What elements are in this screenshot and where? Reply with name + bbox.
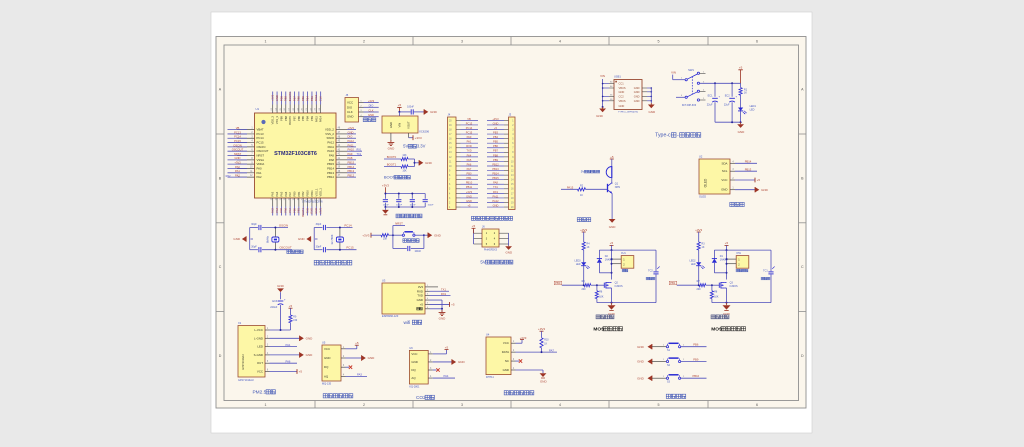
svg-text:PA7: PA7 bbox=[467, 167, 472, 171]
svg-text:EC1: EC1 bbox=[708, 94, 713, 97]
caption dan-pian-ji-yin-jiao-wai-yin-pai-zhen (MCU pin headers) bbox=[471, 216, 512, 220]
power +5 wifi bbox=[430, 302, 455, 307]
svg-text:PB4: PB4 bbox=[306, 115, 310, 120]
caption xia-zai-kou (download port) bbox=[363, 118, 376, 122]
svg-text:GND: GND bbox=[505, 251, 513, 255]
ground Y1 bbox=[233, 236, 246, 241]
svg-text:PC14: PC14 bbox=[234, 135, 241, 139]
svg-text:STM32F103C8T6: STM32F103C8T6 bbox=[274, 151, 317, 157]
svg-text:GND: GND bbox=[233, 237, 241, 241]
wire bottom rail fan bbox=[597, 288, 656, 304]
wire BOOT junction to ground bbox=[414, 159, 420, 167]
resistor R9 150 bbox=[289, 315, 298, 323]
svg-text:RX1: RX1 bbox=[441, 292, 447, 296]
svg-text:VBUS: VBUS bbox=[619, 99, 626, 103]
diode D2 1N4007 flyback bbox=[597, 250, 614, 273]
wire key S3 left bbox=[652, 376, 666, 378]
svg-text:1: 1 bbox=[265, 40, 267, 44]
resistor R3 1K bbox=[697, 242, 705, 250]
svg-text:PA5: PA5 bbox=[279, 207, 283, 212]
power +3V3 reset bbox=[362, 233, 371, 238]
svg-text:X1: X1 bbox=[238, 321, 242, 325]
svg-text:XC6206: XC6206 bbox=[419, 130, 430, 134]
wire switch lower left bbox=[676, 96, 685, 98]
svg-text:+5: +5 bbox=[757, 178, 761, 182]
net label PB9 key bbox=[681, 358, 707, 362]
svg-text:A5: A5 bbox=[610, 81, 612, 84]
regulator U7 XC6206 bbox=[382, 116, 430, 134]
svg-text:USB1: USB1 bbox=[614, 75, 621, 79]
caption BOOT she-zhi-dian-lu (BOOT config) bbox=[384, 175, 410, 180]
svg-text:6: 6 bbox=[756, 40, 758, 44]
svg-text:GND: GND bbox=[411, 360, 417, 364]
resistor R7 200 gate bbox=[697, 280, 706, 291]
svg-text:S-GND: S-GND bbox=[254, 353, 263, 357]
svg-text:PB12: PB12 bbox=[492, 162, 499, 166]
no-connect X DHT11 NC bbox=[516, 359, 523, 362]
ground typec bbox=[737, 122, 745, 134]
svg-text:GND: GND bbox=[634, 94, 640, 98]
svg-text:GND: GND bbox=[738, 130, 746, 134]
svg-text:B9: B9 bbox=[610, 99, 612, 101]
svg-text:GND: GND bbox=[466, 194, 472, 198]
svg-text:AQ: AQ bbox=[411, 376, 416, 380]
wire USB1 left pins bbox=[602, 79, 614, 107]
resistor R1 1K bbox=[739, 83, 748, 95]
crystal Y1 8MHz bbox=[265, 235, 279, 243]
ground BOOT circuit bbox=[419, 160, 433, 165]
svg-text:1K: 1K bbox=[544, 343, 547, 345]
svg-text:LED: LED bbox=[750, 109, 755, 112]
svg-text:PB13: PB13 bbox=[492, 167, 499, 171]
svg-text:TC2: TC2 bbox=[648, 269, 653, 272]
svg-text:PA11: PA11 bbox=[348, 143, 355, 147]
power +5 ion bbox=[725, 241, 729, 250]
svg-text:PB0: PB0 bbox=[292, 207, 296, 212]
svg-text:OLED: OLED bbox=[704, 178, 708, 187]
wire key S2 left bbox=[652, 359, 666, 361]
svg-text:+5: +5 bbox=[725, 241, 729, 245]
svg-text:PA11: PA11 bbox=[493, 194, 500, 198]
connector XH1 output header bbox=[727, 252, 749, 272]
ground key S3 bbox=[637, 376, 652, 381]
wire reset left bbox=[371, 234, 381, 236]
ground key S1 bbox=[637, 344, 652, 349]
svg-text:22uF: 22uF bbox=[707, 104, 713, 107]
svg-text:5: 5 bbox=[658, 403, 660, 407]
svg-text:R10: R10 bbox=[544, 339, 549, 341]
svg-text:CLK: CLK bbox=[368, 108, 373, 112]
ground PM2.5 L-GND bbox=[270, 336, 314, 341]
svg-text:+5: +5 bbox=[355, 341, 359, 345]
wire R2 to base bbox=[586, 188, 608, 190]
svg-text:PM2.5: PM2.5 bbox=[252, 389, 266, 395]
svg-text:GND: GND bbox=[721, 188, 727, 192]
svg-text:VIN: VIN bbox=[397, 123, 401, 128]
svg-text:B5: B5 bbox=[610, 94, 612, 96]
svg-text:10K: 10K bbox=[402, 154, 407, 157]
svg-text:4: 4 bbox=[559, 403, 561, 407]
svg-text:PB3: PB3 bbox=[493, 130, 498, 134]
ground DHT11 bbox=[516, 370, 548, 384]
connector J4 header 20pin left bbox=[448, 113, 479, 210]
svg-text:5V: 5V bbox=[581, 170, 585, 174]
svg-text:PB6: PB6 bbox=[493, 144, 498, 148]
svg-text:GND: GND bbox=[434, 233, 442, 237]
crystal Y2 32.768K bbox=[330, 234, 344, 244]
svg-text:VIN: VIN bbox=[600, 74, 605, 78]
svg-text:PC13: PC13 bbox=[234, 130, 241, 134]
net label PC15 bbox=[346, 246, 354, 250]
svg-text:VSS_1: VSS_1 bbox=[314, 188, 318, 197]
svg-text:RX2: RX2 bbox=[271, 207, 275, 213]
svg-text:5V: 5V bbox=[403, 144, 408, 149]
svg-text:DIO: DIO bbox=[369, 104, 374, 108]
svg-text:PA10: PA10 bbox=[348, 148, 355, 152]
svg-text:GND: GND bbox=[637, 376, 645, 380]
svg-text:CC1: CC1 bbox=[619, 82, 625, 86]
capacitor C14 100nF bbox=[383, 200, 390, 207]
svg-text:PA5: PA5 bbox=[467, 158, 472, 162]
transistor Q2 N-MOS bbox=[604, 282, 623, 289]
svg-text:Type-c: Type-c bbox=[655, 133, 671, 139]
svg-text:+3V3: +3V3 bbox=[368, 99, 375, 103]
wire bottom rail ion bbox=[712, 288, 771, 304]
wire Q1 emitter to ground bbox=[611, 193, 613, 219]
svg-text:8MHz: 8MHz bbox=[265, 235, 269, 243]
diode D1 1N4007 flyback bbox=[712, 250, 729, 273]
svg-text:GND: GND bbox=[306, 353, 314, 357]
wire reset bottom loop bbox=[393, 235, 424, 248]
svg-text:+5: +5 bbox=[398, 103, 402, 107]
svg-text:D: D bbox=[801, 354, 804, 358]
svg-text:VCC: VCC bbox=[721, 178, 727, 182]
ground PM2.5 top bbox=[277, 284, 285, 299]
svg-text:GND: GND bbox=[761, 188, 769, 192]
svg-text:VB: VB bbox=[467, 117, 471, 121]
net label VIN usb bbox=[600, 74, 605, 78]
svg-text:PC15: PC15 bbox=[346, 246, 354, 250]
svg-text:wifi: wifi bbox=[403, 320, 410, 326]
svg-text:PA3: PA3 bbox=[271, 191, 275, 196]
caption dan-pian-ji-zui-xiao-xi-tong (MCU minimum system) bbox=[314, 260, 352, 265]
capacitor C 30pF top Y1 bbox=[251, 223, 261, 230]
wire gate node fan bbox=[591, 284, 605, 286]
svg-text:C: C bbox=[801, 265, 804, 269]
ground ion bbox=[723, 303, 731, 316]
capacitor C17 100nF bbox=[423, 200, 435, 207]
svg-text:PB0: PB0 bbox=[555, 281, 561, 285]
transistor Q3 N-MOS bbox=[719, 282, 738, 289]
svg-text:PA5: PA5 bbox=[279, 191, 283, 196]
wire PM2.5 vcc node bbox=[270, 323, 291, 331]
power +5 fan bbox=[610, 241, 614, 250]
wire crystal loop Y1 bbox=[250, 227, 292, 251]
svg-text:PA15: PA15 bbox=[314, 94, 318, 101]
connector J3 header 20pin right bbox=[487, 113, 515, 210]
caption xin-pian-lv-bo-dian-rong (chip filter caps) bbox=[396, 214, 422, 218]
capacitor EC1 22uF bbox=[707, 83, 721, 122]
svg-text:22uF: 22uF bbox=[724, 104, 730, 107]
svg-text:PA1: PA1 bbox=[286, 343, 291, 347]
svg-text:PC13: PC13 bbox=[466, 121, 473, 125]
wire reset node bbox=[389, 234, 403, 236]
capacitor C15 100nF bbox=[396, 200, 403, 207]
svg-text:PA4: PA4 bbox=[275, 207, 279, 212]
svg-text:PB9: PB9 bbox=[693, 358, 699, 362]
svg-text:RX1: RX1 bbox=[493, 190, 499, 194]
power +5 port regulator bbox=[397, 103, 401, 112]
net label PB13 SCL bbox=[735, 167, 757, 171]
svg-text:PB5: PB5 bbox=[493, 140, 498, 144]
caption wifi mo-kuai (wifi module) bbox=[403, 320, 421, 326]
wire DATA net PA7 bbox=[516, 348, 558, 353]
pushbutton reset S4 bbox=[402, 232, 415, 236]
svg-text:3: 3 bbox=[461, 403, 463, 407]
svg-text:PB15: PB15 bbox=[492, 176, 499, 180]
net label NRST bbox=[393, 222, 405, 236]
svg-text:PB11: PB11 bbox=[466, 185, 473, 189]
capacitor C 30pF bottom Y2 bbox=[316, 245, 326, 252]
svg-text:PB3: PB3 bbox=[310, 96, 314, 102]
svg-text:NPN: NPN bbox=[615, 186, 620, 189]
caption du-li-an-jian (independent keys) bbox=[666, 394, 685, 398]
svg-text:PB10: PB10 bbox=[306, 190, 310, 197]
resistor R10 1K pullup bbox=[540, 338, 549, 348]
svg-text:TX1: TX1 bbox=[441, 287, 446, 291]
net label PA15 buzzer bbox=[561, 185, 578, 189]
svg-text:PA6: PA6 bbox=[284, 207, 288, 212]
net label PC14 bbox=[344, 223, 352, 227]
svg-text:U5: U5 bbox=[322, 341, 326, 345]
svg-text:PA9: PA9 bbox=[348, 152, 353, 156]
svg-text:PB1: PB1 bbox=[670, 281, 676, 285]
switch SW1 KFT-DIP-6X6 bbox=[681, 68, 706, 107]
wire diode node ion bbox=[714, 272, 726, 274]
svg-text:PA0: PA0 bbox=[235, 165, 240, 169]
svg-text:PA2: PA2 bbox=[235, 174, 240, 178]
svg-text:PB6: PB6 bbox=[693, 343, 699, 347]
svg-text:30pF: 30pF bbox=[251, 245, 257, 248]
svg-text:NRST: NRST bbox=[395, 222, 403, 226]
svg-text:PA3: PA3 bbox=[357, 373, 362, 377]
svg-text:PB13: PB13 bbox=[348, 169, 355, 173]
svg-text:GND: GND bbox=[368, 356, 376, 360]
net label PB0 gate bbox=[554, 281, 561, 285]
svg-text:MOS: MOS bbox=[593, 326, 605, 332]
svg-text:PA4: PA4 bbox=[467, 153, 472, 157]
svg-text:5: 5 bbox=[658, 40, 660, 44]
svg-text:GND: GND bbox=[634, 99, 640, 103]
svg-text:GND: GND bbox=[540, 380, 548, 384]
svg-text:BOOT1: BOOT1 bbox=[301, 207, 305, 216]
U1 top pins with rotated net labels bbox=[271, 92, 323, 125]
svg-text:PB1: PB1 bbox=[297, 191, 301, 196]
svg-text:N-MOS: N-MOS bbox=[615, 285, 623, 288]
svg-text:100nF: 100nF bbox=[383, 205, 390, 207]
svg-text:+3V3: +3V3 bbox=[466, 190, 473, 194]
connector J5 download port bbox=[345, 93, 379, 122]
svg-text:GND: GND bbox=[458, 360, 466, 364]
net label RX1 wifi bbox=[430, 292, 451, 296]
wifi module U3 ESP8266-12F bbox=[382, 279, 430, 319]
connector FU1 output header bbox=[612, 252, 634, 272]
wire key S1 left bbox=[652, 344, 666, 346]
svg-text:NRST: NRST bbox=[234, 152, 242, 156]
net label TX1 wifi bbox=[430, 287, 450, 291]
U1 right pins with net labels bbox=[325, 126, 362, 179]
svg-text:PB14: PB14 bbox=[348, 165, 355, 169]
svg-text:VBUS: VBUS bbox=[619, 86, 626, 90]
svg-text:PA7: PA7 bbox=[288, 191, 292, 196]
net label OSCIN bbox=[279, 223, 288, 227]
svg-text:GND: GND bbox=[324, 356, 330, 360]
svg-text:PB12: PB12 bbox=[348, 174, 355, 178]
capacitor C 30pF top Y2 bbox=[316, 223, 326, 230]
resistor R 10K reset bbox=[381, 234, 389, 241]
LED1 bbox=[738, 95, 756, 122]
svg-text:PA4: PA4 bbox=[275, 191, 279, 196]
svg-text:GND: GND bbox=[389, 122, 393, 128]
svg-text:GND: GND bbox=[314, 208, 318, 214]
svg-text:+3V3: +3V3 bbox=[415, 136, 422, 140]
sensor U6 KQ-2801 bbox=[409, 346, 432, 388]
ground CO2 bbox=[433, 359, 466, 364]
svg-text:PB5: PB5 bbox=[301, 96, 305, 102]
svg-text:PB13: PB13 bbox=[745, 167, 752, 171]
svg-text:1K: 1K bbox=[702, 246, 705, 249]
svg-text:GND: GND bbox=[439, 317, 447, 321]
caption feng-ming-qi (buzzer) bbox=[577, 218, 591, 222]
OLED module U2 bbox=[699, 155, 735, 199]
svg-text:VOUT: VOUT bbox=[407, 121, 411, 129]
net label OSCOUT bbox=[279, 246, 292, 250]
svg-text:VCC: VCC bbox=[347, 101, 353, 105]
svg-text:PA8: PA8 bbox=[348, 156, 353, 160]
svg-text:OLED: OLED bbox=[699, 194, 706, 198]
wire wifi pin1 bbox=[430, 286, 439, 288]
power +5 typec bbox=[738, 66, 742, 84]
net label PA6 PM2.5 bbox=[270, 359, 298, 363]
svg-text:32.768K: 32.768K bbox=[330, 234, 334, 244]
svg-text:ESP8266-12F: ESP8266-12F bbox=[382, 314, 399, 318]
resistor R5 200 gate bbox=[582, 280, 591, 291]
svg-text:GND: GND bbox=[596, 114, 604, 118]
svg-text:+5: +5 bbox=[610, 155, 614, 159]
power +3V3 DHT11 pullup bbox=[538, 327, 545, 338]
resistor R2 1K buzzer bbox=[578, 184, 586, 197]
caption xian-shi-ping (display) bbox=[730, 202, 744, 206]
caption MOS guan-kong-zhi-feng-shan (MOS controls fan) bbox=[593, 326, 622, 332]
svg-text:TYPE-C-16PIN(073): TYPE-C-16PIN(073) bbox=[618, 111, 638, 113]
svg-text:PB0: PB0 bbox=[467, 172, 472, 176]
svg-text:VB: VB bbox=[236, 126, 240, 130]
svg-text:+3V3: +3V3 bbox=[580, 228, 587, 232]
svg-text:-: - bbox=[677, 133, 679, 139]
capacitor C16 100nF bbox=[410, 200, 417, 207]
svg-text:+5: +5 bbox=[445, 346, 449, 350]
ground MQ135 bbox=[346, 355, 376, 360]
svg-text:PB7: PB7 bbox=[493, 149, 498, 153]
svg-text:GP2Y1014AU: GP2Y1014AU bbox=[242, 354, 245, 370]
pushbutton S1 bbox=[666, 343, 680, 352]
wire USB1 right pins to ground bbox=[642, 87, 652, 103]
svg-text:GND: GND bbox=[430, 110, 438, 114]
svg-text:KFT-DIP-6X6: KFT-DIP-6X6 bbox=[682, 104, 697, 107]
svg-text:NC: NC bbox=[505, 359, 509, 363]
svg-text:PB1: PB1 bbox=[467, 176, 472, 180]
svg-text:3.3V: 3.3V bbox=[417, 144, 426, 149]
capacitor EC3 220uF bbox=[270, 298, 286, 330]
svg-text:VDD_1: VDD_1 bbox=[319, 188, 323, 197]
svg-text:1K: 1K bbox=[744, 92, 747, 95]
svg-text:CLK: CLK bbox=[347, 110, 353, 114]
svg-text:SW1: SW1 bbox=[688, 68, 694, 72]
svg-text:BOOT0: BOOT0 bbox=[387, 155, 397, 159]
svg-text:PB12: PB12 bbox=[327, 175, 334, 179]
svg-text:PB4: PB4 bbox=[305, 96, 309, 102]
svg-text:GND: GND bbox=[637, 345, 645, 349]
ground filter caps bbox=[382, 207, 389, 215]
svg-text:GND: GND bbox=[277, 284, 285, 288]
svg-text:PA12: PA12 bbox=[348, 139, 355, 143]
svg-text:GND: GND bbox=[648, 110, 656, 114]
svg-text:PB9: PB9 bbox=[279, 96, 283, 102]
wire gate fan bbox=[562, 284, 585, 286]
svg-text:200: 200 bbox=[582, 288, 587, 291]
svg-text:L-GND: L-GND bbox=[254, 336, 263, 340]
svg-text:PA8: PA8 bbox=[493, 181, 498, 185]
caption kong-qi-zhi-liang-jian-ce (air quality) bbox=[323, 394, 353, 398]
ground USB right bbox=[648, 103, 656, 114]
svg-text:+5: +5 bbox=[299, 370, 303, 374]
svg-text:OUT: OUT bbox=[257, 361, 263, 365]
svg-text:OSCOUT: OSCOUT bbox=[279, 246, 292, 250]
U1 left pins 1-12 with net labels bbox=[226, 126, 269, 179]
svg-text:100nF: 100nF bbox=[415, 251, 422, 253]
connector J6 PinHDR2X3 bbox=[474, 225, 509, 252]
svg-text:LED: LED bbox=[691, 263, 696, 266]
svg-text:+3V3: +3V3 bbox=[348, 126, 355, 130]
power +3V3 ion bbox=[695, 228, 702, 242]
svg-text:L-VCC: L-VCC bbox=[254, 328, 263, 332]
svg-text:PB2: PB2 bbox=[301, 191, 305, 196]
ground right of regulator cap bbox=[424, 109, 438, 114]
svg-text:PA7: PA7 bbox=[549, 348, 554, 352]
svg-text:PB3: PB3 bbox=[310, 115, 314, 120]
svg-text:GND: GND bbox=[466, 199, 472, 203]
svg-text:PB0: PB0 bbox=[293, 191, 297, 196]
wire crystal loop Y2 bbox=[314, 227, 356, 251]
wire diode node fan bbox=[599, 272, 611, 274]
svg-text:100nF: 100nF bbox=[410, 205, 417, 207]
svg-text:RX1: RX1 bbox=[357, 149, 362, 152]
svg-text:100nF: 100nF bbox=[428, 205, 435, 207]
svg-text:DIO: DIO bbox=[348, 135, 353, 139]
svg-text:OSCOUT: OSCOUT bbox=[232, 148, 244, 152]
sensor U5 MQ-135 bbox=[322, 341, 346, 386]
svg-text:TX1: TX1 bbox=[357, 153, 362, 156]
capacitor 100nF regulator bbox=[407, 105, 414, 114]
svg-text:SDA: SDA bbox=[722, 161, 728, 165]
svg-text:RXD: RXD bbox=[310, 208, 314, 214]
svg-text:GND: GND bbox=[388, 147, 396, 151]
svg-text:+5: +5 bbox=[472, 224, 476, 228]
svg-text:10K: 10K bbox=[383, 238, 388, 241]
net label PB6 key bbox=[681, 343, 707, 347]
capacitor 100nF reset bbox=[408, 246, 422, 253]
svg-text:VCC: VCC bbox=[503, 341, 509, 345]
